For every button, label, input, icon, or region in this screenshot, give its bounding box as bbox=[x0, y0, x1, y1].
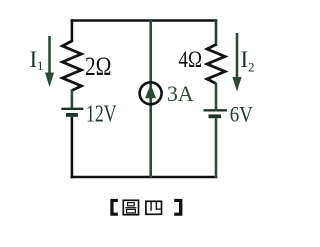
svg-text:4Ω: 4Ω bbox=[179, 47, 203, 73]
wire right upper bbox=[215, 19, 218, 46]
wire left lower bbox=[71, 117, 74, 179]
wire bottom bbox=[71, 176, 218, 179]
svg-text:6V: 6V bbox=[230, 102, 253, 127]
svg-text:2Ω: 2Ω bbox=[85, 52, 112, 81]
battery B1 short plate bbox=[66, 113, 78, 117]
svg-text:1: 1 bbox=[37, 58, 44, 73]
svg-text:3A: 3A bbox=[167, 81, 194, 106]
resistor R1 2ohm bbox=[62, 41, 81, 91]
svg-text:12V: 12V bbox=[86, 101, 117, 127]
wire right lower bbox=[215, 118, 218, 178]
wire top bbox=[71, 19, 218, 22]
current arrow I1 bbox=[48, 36, 51, 75]
current source CS1 circle bbox=[140, 82, 162, 104]
caption right lenticular bracket bbox=[174, 199, 182, 216]
svg-text:2: 2 bbox=[248, 60, 255, 75]
resistor R2 4ohm bbox=[207, 45, 225, 84]
battery B2 short plate bbox=[209, 114, 222, 118]
caption figure four: left lenticular bracket bbox=[110, 199, 118, 216]
wire middle bbox=[149, 19, 152, 178]
wire left upper bbox=[71, 19, 74, 42]
caption glyph SI (four) bbox=[146, 201, 162, 214]
current arrow I2 bbox=[236, 33, 239, 79]
caption glyph TU (figure) bbox=[123, 200, 138, 214]
battery B1 long plate bbox=[61, 108, 83, 110]
wire stub R2 to battery B2 bbox=[215, 83, 218, 109]
wire stub R1 to battery B1 bbox=[71, 90, 74, 108]
battery B2 long plate bbox=[204, 109, 228, 111]
current source CS1 arrow bbox=[145, 84, 156, 98]
